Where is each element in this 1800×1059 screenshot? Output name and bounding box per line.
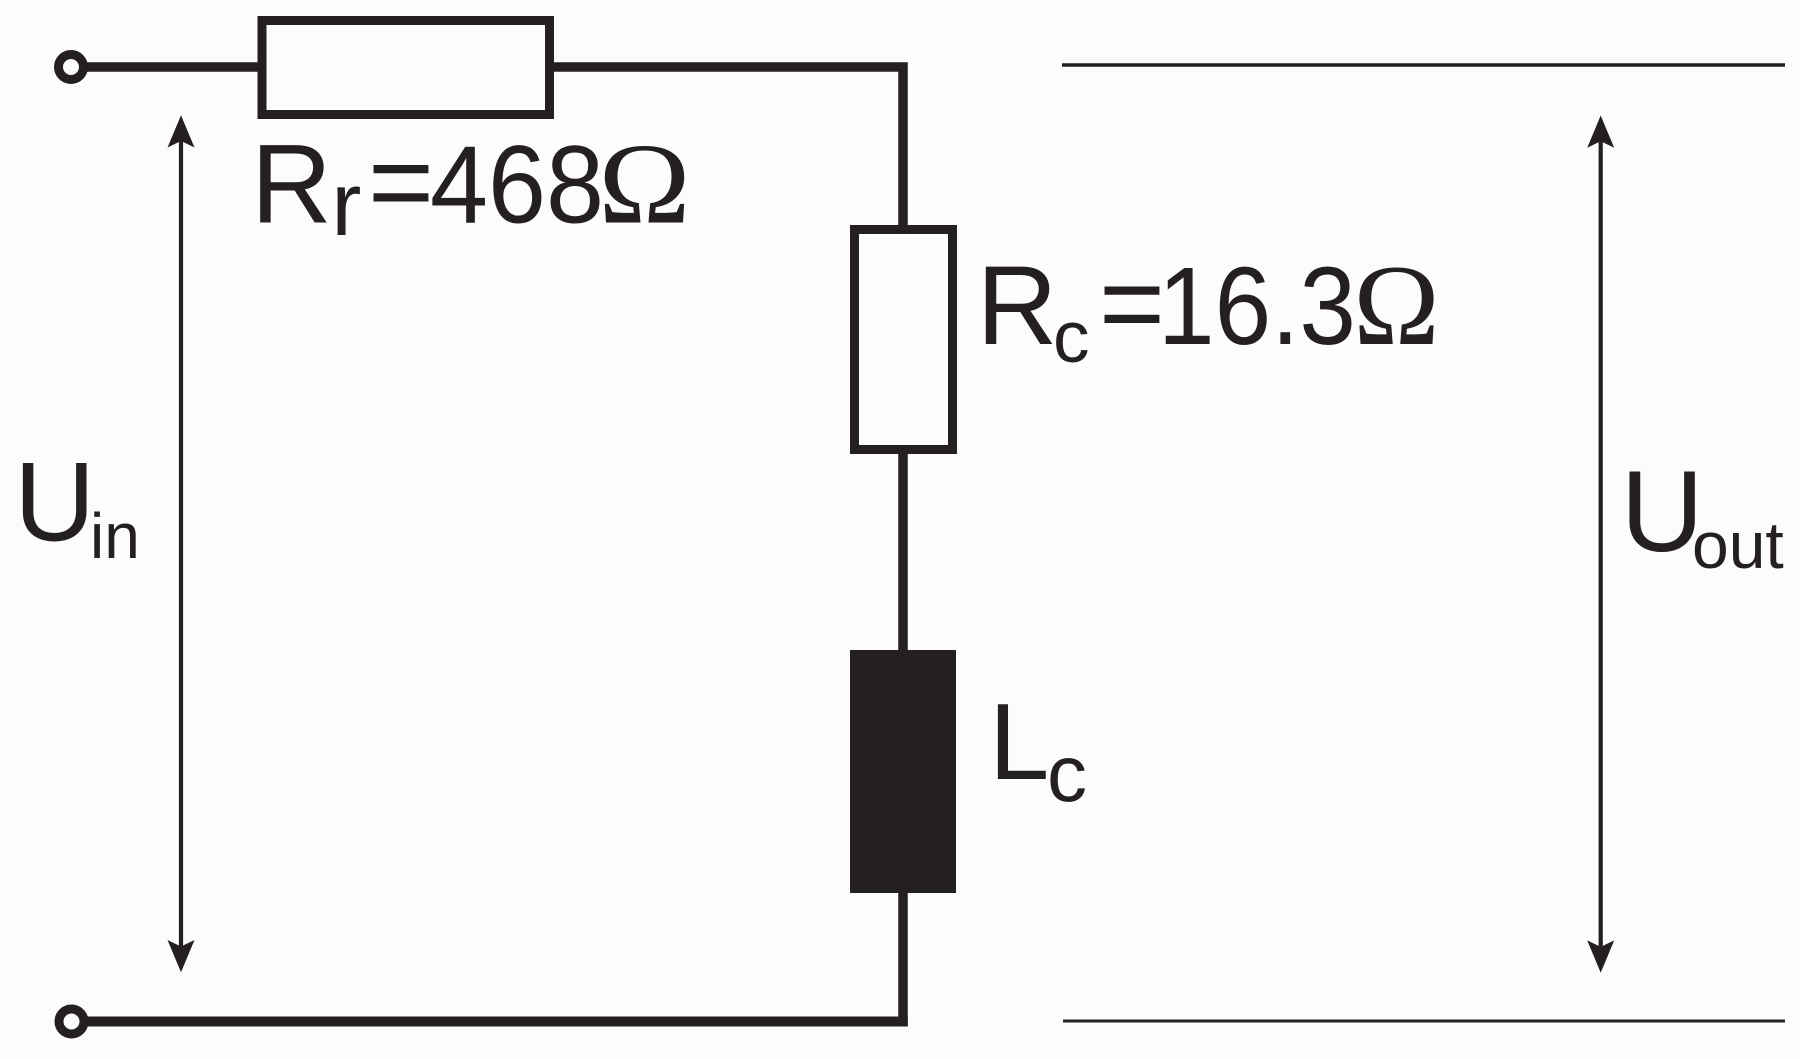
svg-text:out: out [1692,508,1784,582]
svg-text:16.3: 16.3 [1158,245,1356,368]
svg-text:c: c [1047,729,1087,818]
svg-text:L: L [989,681,1049,802]
svg-text:Ω: Ω [598,119,690,247]
svg-text:U: U [14,440,95,565]
svg-text:=: = [368,119,434,245]
svg-text:468: 468 [430,124,604,247]
svg-text:r: r [331,155,361,255]
svg-text:in: in [90,500,140,572]
svg-text:R: R [251,122,332,247]
svg-text:c: c [1053,297,1090,378]
svg-text:=: = [1099,240,1165,366]
svg-text:R: R [977,243,1058,368]
svg-text:Ω: Ω [1353,242,1439,370]
